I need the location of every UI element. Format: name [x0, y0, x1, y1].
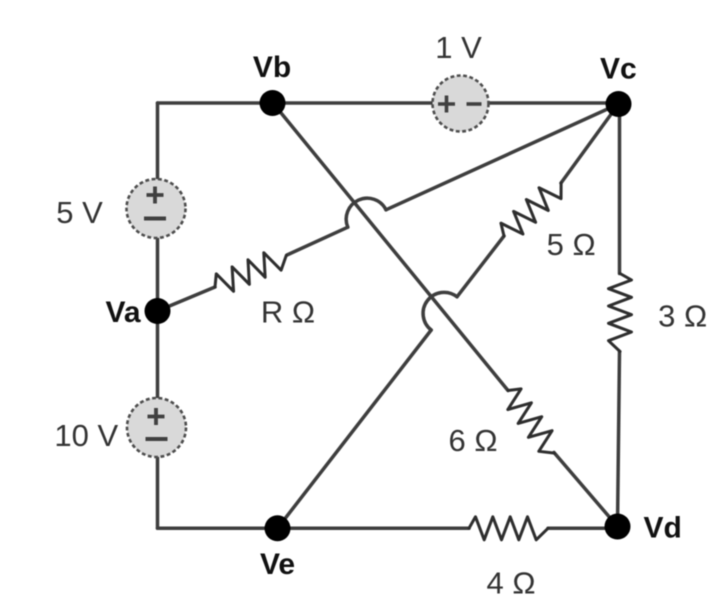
resistor 3 ohm (right rail) — [609, 274, 632, 352]
resistor R (on Va-Vc branch) — [210, 245, 291, 298]
wire 6ohm to Vd — [554, 453, 618, 527]
hop arc over Vb-Vd line on Va-Vc branch — [346, 198, 386, 227]
node Vc dot — [606, 91, 632, 117]
voltage source 1 V body — [433, 76, 489, 132]
svg-text:R Ω: R Ω — [261, 295, 315, 330]
node Ve dot — [265, 515, 291, 541]
voltage source 5 V body — [127, 179, 186, 238]
node Va dot — [145, 298, 171, 324]
wire right rail lower (3ohm - Vd) — [618, 352, 620, 527]
wire hop exit to Vc — [386, 104, 619, 210]
resistor 4 ohm (bottom rail) — [469, 517, 548, 540]
voltage source 5 V minus sign — [144, 217, 166, 221]
wire Va to R resistor — [158, 287, 216, 311]
svg-text:5 V: 5 V — [56, 195, 103, 230]
wire bottom rail right of 4ohm — [548, 527, 618, 531]
svg-text:Va: Va — [105, 296, 140, 329]
hop arc over Vb-Vd line on Ve-Vc branch — [423, 292, 457, 330]
svg-text:5 Ω: 5 Ω — [547, 227, 596, 262]
svg-text:6 Ω: 6 Ω — [448, 423, 497, 458]
voltage source 5 V plus sign — [147, 187, 164, 204]
wire Ve to hop entry — [278, 330, 432, 528]
wire top rail (TL corner - Vb - 1V - Vc) — [158, 101, 619, 105]
svg-text:Vb: Vb — [253, 51, 291, 84]
svg-text:Vc: Vc — [600, 53, 637, 86]
wire left rail (TL corner - 5V - Va - 10V - BL corner) — [156, 103, 160, 528]
resistor 5 ohm (on Ve-Vc branch) — [496, 174, 569, 244]
voltage source 10 V minus sign — [146, 437, 168, 441]
node Vd dot — [605, 514, 631, 540]
svg-text:1 V: 1 V — [435, 30, 482, 65]
voltage source 10 V plus sign — [148, 408, 165, 425]
voltage source 1 V minus sign — [467, 102, 482, 106]
wire 5ohm to Vc — [561, 104, 619, 183]
svg-text:3 Ω: 3 Ω — [658, 299, 707, 334]
voltage source 10 V body — [127, 398, 186, 457]
svg-text:4 Ω: 4 Ω — [486, 566, 535, 601]
svg-text:10 V: 10 V — [54, 418, 118, 453]
voltage source 1 V plus sign — [438, 96, 455, 113]
svg-text:Ve: Ve — [260, 548, 295, 581]
resistor 6 ohm (on Vb-Vd branch) — [499, 384, 564, 460]
svg-text:Vd: Vd — [644, 512, 682, 545]
wire bottom rail (BL corner - Ve - 4ohm - Vd) — [158, 527, 470, 531]
wire Vb to 6ohm — [273, 103, 509, 391]
wire R resistor to hop entry — [287, 227, 348, 255]
wire right rail upper (Vc - 3ohm) — [618, 104, 622, 274]
node Vb dot — [260, 90, 286, 116]
wire hop exit to 5ohm — [457, 236, 504, 297]
